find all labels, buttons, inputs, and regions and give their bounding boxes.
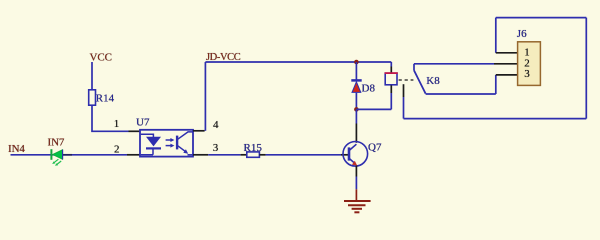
ground bar 1 (344, 200, 371, 202)
wire common pin down to bottom rail (403, 97, 405, 119)
U7 internal LED anode lead (141, 134, 154, 137)
U7 coupling arrow 1 (166, 138, 175, 142)
wire D8 branch lower (355, 93, 357, 110)
optocoupler U7 box (140, 130, 193, 157)
wire coil bottom to D8 bottom node (356, 108, 391, 110)
relay K8 coil box red top edge (385, 72, 398, 74)
diode D8 red triangle (352, 82, 361, 93)
LED IN7 emission arrow 2 (55, 161, 61, 166)
svg-text:J6: J6 (517, 28, 527, 40)
wire IN4 input to U7 pin 2 (11, 154, 128, 156)
relay K8 top contact wire (414, 63, 494, 65)
wire coil bottom (390, 93, 392, 109)
svg-text:Q7: Q7 (368, 141, 382, 153)
pin 4 stub of U7 (193, 130, 205, 132)
ground bar 4 (354, 211, 359, 213)
wire top rail down to J6 pin 1 (495, 18, 497, 53)
relay K8 coil box (385, 73, 397, 85)
J6 pin 1 stub (496, 52, 518, 54)
U7 internal LED cathode lead (141, 148, 153, 154)
R15 pin stub left (241, 154, 247, 156)
svg-text:1: 1 (114, 118, 120, 130)
pin 2 stub of U7 (127, 154, 140, 156)
svg-text:IN7: IN7 (48, 137, 65, 149)
relay K8 common pin (403, 84, 405, 97)
U7 internal LED triangle (146, 137, 161, 147)
svg-text:R14: R14 (96, 93, 115, 105)
U7 coupling arrow 2 (166, 144, 175, 148)
svg-text:2: 2 (114, 144, 120, 156)
svg-text:R15: R15 (244, 142, 263, 154)
Q7 base pin (341, 154, 349, 156)
svg-text:VCC: VCC (90, 51, 112, 63)
svg-text:3: 3 (524, 68, 530, 80)
ground bar 2 (348, 204, 366, 206)
wire R15 to Q7 base (266, 154, 341, 156)
J6 pin 2 stub (494, 63, 518, 65)
transistor Q7 collector pin (355, 124, 357, 143)
transistor Q7 base bar (348, 147, 351, 160)
R15 pin stub right (259, 154, 265, 156)
U7 phototransistor base bar (176, 136, 178, 150)
pin 1 stub of U7 (129, 130, 141, 132)
J6 pin 3 stub (496, 74, 518, 76)
wire riser to J6 pin 3 (495, 75, 497, 94)
wire D8 branch upper (355, 62, 357, 80)
transistor Q7 emitter diagonal (349, 158, 355, 163)
junction node at D8 bottom (354, 107, 359, 112)
relay K8 coil pin bottom (390, 85, 392, 93)
wire U7 pin4 up to JD-VCC rail (204, 62, 206, 131)
resistor R15 (247, 152, 260, 157)
LED IN7 pin stub (63, 154, 72, 156)
svg-text:IN4: IN4 (8, 143, 25, 155)
junction node at D8 top (354, 60, 359, 65)
wire armature bottom to J6 pin3 riser (426, 93, 496, 95)
U7 internal LED cathode bar (146, 147, 161, 149)
relay K8 coil pin top (390, 67, 392, 74)
wire VCC to R14 (91, 62, 93, 90)
U7 phototransistor emitter with arrow (178, 146, 193, 155)
svg-text:4: 4 (213, 119, 219, 131)
top rail wire (496, 17, 587, 19)
wire emitter to ground (355, 177, 357, 190)
transistor Q7 circle (343, 142, 368, 167)
bottom rail wire (404, 118, 587, 120)
resistor R14 (89, 90, 96, 105)
LED IN7 anode edge (62, 150, 64, 160)
relay K8 contact post (413, 64, 415, 71)
transistor Q7 collector diagonal (349, 144, 356, 150)
LED IN7 cathode bar (50, 149, 52, 160)
U7 phototransistor collector (178, 132, 193, 139)
svg-text:3: 3 (213, 142, 219, 154)
transistor Q7 emitter pin (355, 166, 357, 177)
wire collector riser (355, 109, 357, 123)
pin 3 stub of U7 (193, 154, 208, 156)
right rail wire (585, 18, 587, 119)
wire R14 to U7 pin 1 (92, 105, 129, 131)
relay K8 dashed link (399, 79, 414, 81)
diode D8 cathode bar (351, 79, 361, 82)
svg-text:K8: K8 (426, 75, 440, 87)
ground stem (355, 189, 357, 201)
wire U7 pin3 to R15 (208, 154, 240, 156)
connector J6 body (518, 42, 541, 86)
wire JD-VCC rail (205, 61, 391, 63)
transistor Q7 emitter red arrowhead (352, 161, 357, 166)
LED IN7 triangle (53, 150, 63, 160)
relay K8 armature (414, 70, 426, 93)
svg-text:U7: U7 (136, 117, 150, 129)
wire JD-VCC down to relay coil (390, 62, 392, 67)
svg-text:D8: D8 (362, 83, 376, 95)
ground bar 3 (352, 208, 362, 210)
LED IN7 emission arrow 1 (52, 159, 58, 164)
